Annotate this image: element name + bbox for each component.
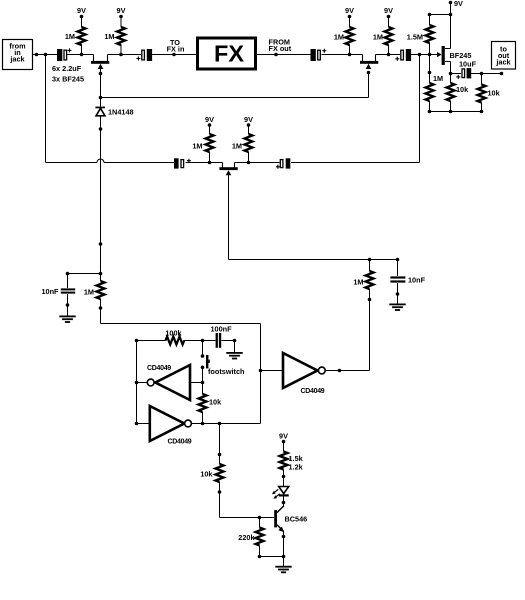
svg-text:10k: 10k: [209, 398, 222, 407]
node dot: 10nF right junction: [396, 258, 400, 262]
node dot: 100nF ground junction: [233, 339, 237, 343]
wire: left 10nF top lead: [67, 274, 69, 289]
resistor R1 1M: [65, 27, 86, 45]
resistor R2 1M: [104, 27, 125, 45]
node dot: left rail top: [135, 339, 139, 343]
wire: 10k R11 top lead: [202, 383, 204, 395]
node dot: source cap junction: [449, 72, 453, 76]
wire: node A branch down to bypass line: [45, 55, 47, 163]
wire: LED resistor bottom: [283, 470, 285, 487]
svg-text:1M: 1M: [84, 288, 94, 297]
node dot: 10nF left bottom: [66, 303, 70, 307]
resistor R15 10k: [478, 85, 501, 103]
wire: U1 output to left rail: [137, 382, 148, 384]
wire: bypass line left section: [46, 162, 98, 164]
wire: R9 bottom to U3 output line: [369, 289, 371, 371]
node dot: 10nF left junction: [66, 272, 70, 276]
to out jack box: [492, 42, 516, 70]
capacitor 10nF right: [390, 276, 425, 285]
svg-text:1M: 1M: [192, 142, 202, 151]
wire: 10k R14 top lead: [450, 74, 452, 84]
wire: 1.5M top lead: [429, 15, 431, 26]
footswitch SW1: [201, 354, 245, 376]
capacitor 100nF: [210, 325, 232, 348]
wire: diode D1 anode down: [100, 116, 102, 274]
node dot: U3 output: [338, 369, 342, 373]
wire: cap C3 to JFET Q2 source lead: [322, 54, 363, 56]
svg-text:9V: 9V: [345, 6, 354, 15]
wire: 100k to footswitch junction: [184, 340, 203, 342]
wire: cap C5 to JFET Q3: [186, 162, 223, 164]
svg-text:10nF: 10nF: [408, 276, 426, 285]
svg-text:9V: 9V: [117, 6, 126, 15]
node dot: emitter rail: [282, 555, 286, 559]
svg-text:9V: 9V: [205, 115, 214, 124]
svg-text:9V: 9V: [384, 6, 393, 15]
wire: JFET Q3 to cap C6: [235, 162, 280, 164]
svg-text:10uF: 10uF: [459, 60, 477, 69]
svg-text:10k: 10k: [200, 470, 213, 479]
node dot: R10 top junction: [99, 272, 103, 276]
node dot: main line after jack: [35, 53, 39, 57]
capacitor C7 10uF: [456, 60, 476, 79]
node dot: R7 top 9V: [208, 123, 212, 127]
svg-text:jack: jack: [9, 55, 25, 64]
svg-text:100k: 100k: [165, 329, 182, 338]
svg-text:CD4049: CD4049: [147, 365, 171, 372]
node dot: FROM FX out: [274, 53, 278, 57]
node dot: out node left: [480, 72, 484, 76]
node dot: emitter: [282, 535, 286, 539]
wire: right 10nF bottom to ground: [397, 283, 399, 304]
svg-text:1M: 1M: [353, 278, 363, 287]
wire: 1.5M top link: [430, 14, 451, 16]
wire: bypass line hop to cap C5: [104, 162, 174, 164]
node dot: out node right: [500, 72, 504, 76]
node dot: 220k top: [258, 516, 262, 520]
transistor Q5 BC546: [274, 506, 307, 532]
wire: R6 bottom to main line: [388, 45, 390, 55]
wire: 10k R11 bottom lead: [202, 412, 204, 424]
node dot: U1 input junction: [201, 381, 205, 385]
svg-text:9V: 9V: [244, 115, 253, 124]
wire: 1M R13 top lead: [429, 55, 431, 84]
node dot: gate column mid: [99, 242, 103, 246]
node dot: left rail U1 output: [135, 381, 139, 385]
svg-text:10k: 10k: [456, 85, 469, 94]
wire: left rail to U2 input: [137, 423, 150, 425]
wire: BF245 source lead: [445, 61, 451, 63]
wire: emitter down to ground: [283, 532, 285, 567]
transistor Q3 BF245: [219, 163, 237, 176]
transistor Q4 BF245 output buffer: [437, 46, 471, 65]
wire: U3 output to riser: [326, 370, 370, 372]
resistor R8 1M: [232, 134, 253, 152]
node dot: 10nF right bottom: [396, 292, 400, 296]
wire: Q1 gate down to junction: [100, 69, 102, 107]
resistor R17 1.5k/1.2k: [280, 452, 304, 472]
svg-text:1M: 1M: [373, 33, 383, 42]
capacitor C1 2.2uF: [57, 48, 72, 61]
wire: source junction to 10uF: [451, 73, 462, 75]
wire: 1.5M bottom lead: [429, 43, 431, 55]
LED D2: [272, 487, 289, 499]
node dot: R6 bottom: [387, 53, 391, 57]
node dot: rail R15: [480, 110, 484, 114]
wire: left 10nF bottom lead to ground: [67, 294, 69, 316]
wire: 10k R14 bottom lead: [450, 101, 452, 112]
wire: cap C1 to JFET Q1 source lead: [67, 54, 94, 56]
svg-text:1M: 1M: [232, 142, 242, 151]
wire: 10k R12 bottom to corner: [219, 482, 221, 518]
inverter U2 CD4049: [150, 406, 192, 446]
wire: R1 bottom to main line: [81, 45, 83, 55]
node dot: R8 bottom: [247, 161, 251, 165]
wire: LED cathode to collector: [283, 497, 285, 507]
resistor 1.5M: [407, 25, 434, 43]
wire: R6 top to 9V: [388, 17, 390, 28]
node dot: R9 node junction: [368, 258, 372, 262]
node dot: R6 top 9V: [387, 15, 391, 19]
node dot: latch line 10k R11: [201, 422, 205, 426]
wire: cap C6 to node B riser: [291, 162, 420, 164]
wire: R2 bottom to main line: [120, 45, 122, 55]
capacitor 10nF left: [41, 287, 75, 296]
resistor R12 10k: [200, 464, 223, 482]
svg-text:1M: 1M: [334, 33, 344, 42]
node dot: R7 bottom: [208, 161, 212, 165]
wire: 1M R13 bottom lead: [429, 101, 431, 112]
node dot: R9 bottom: [368, 298, 372, 302]
wire: FX box to cap C3: [257, 54, 311, 56]
resistor R16 220k: [238, 528, 263, 546]
wire: R5 bottom to main line: [349, 45, 351, 55]
FX box: [198, 38, 256, 69]
node dot: R10 bottom: [99, 306, 103, 310]
wire: right 10nF top lead: [397, 260, 399, 277]
wire: footswitch junction to 100nF: [203, 340, 216, 342]
svg-text:9V: 9V: [77, 6, 86, 15]
node dot: R1 top 9V: [80, 15, 84, 19]
resistor R7 1M: [192, 134, 213, 152]
node dot: node B riser junction: [418, 53, 422, 57]
svg-text:1N4148: 1N4148: [108, 108, 134, 117]
wire: 100nF ground drop: [234, 341, 236, 353]
capacitor C2: [136, 49, 152, 61]
svg-text:jack: jack: [495, 58, 511, 67]
node dot: 9V top right: [449, 1, 453, 5]
from in jack box: [3, 40, 33, 70]
wire: footswitch bottom lead: [202, 369, 204, 383]
node dot: footswitch junction: [201, 339, 205, 343]
node dot: rail R13: [428, 110, 432, 114]
node dot: R8 top 9V: [247, 123, 251, 127]
wire: footswitch top lead: [202, 341, 204, 355]
resistor R11 10k: [199, 394, 223, 412]
wire: emitter bottom rail: [260, 556, 284, 558]
wire: JFET Q1 drain lead to cap C2: [108, 54, 142, 56]
wire: 10uF to out node: [471, 73, 502, 75]
resistor R14 10k: [447, 83, 470, 101]
transistor Q2 BF245: [360, 55, 378, 70]
svg-text:CD4049: CD4049: [168, 439, 192, 446]
node dot: R2 top 9V: [119, 15, 123, 19]
transistor Q1 BF245: [91, 55, 109, 70]
capacitor C4: [395, 49, 411, 61]
wire: BF245 drain riser to 9V line: [450, 15, 452, 49]
svg-text:footswitch: footswitch: [208, 367, 244, 376]
resistor R5 1M: [334, 27, 354, 45]
svg-text:FX in: FX in: [167, 45, 185, 54]
node dot: R5 bottom: [348, 53, 352, 57]
svg-text:10nF: 10nF: [41, 287, 59, 296]
node dot: drain riser junction: [449, 13, 453, 17]
svg-text:1M: 1M: [433, 74, 443, 83]
wire: R1 top to 9V: [81, 17, 83, 28]
svg-text:1M: 1M: [104, 32, 114, 41]
svg-text:6x 2.2uF: 6x 2.2uF: [52, 64, 82, 73]
svg-text:CD4049: CD4049: [301, 388, 325, 395]
wire: R7 leads: [209, 125, 211, 163]
wire: latch left rail: [136, 341, 138, 424]
node dot: TO FX in: [172, 53, 176, 57]
node dot: gate line junction: [99, 96, 103, 100]
wire: R5 top to 9V: [349, 17, 351, 28]
crossover hop of bypass line over gate line: [97, 159, 104, 163]
wire: 220k bottom lead: [259, 518, 261, 528]
resistor 100k: [165, 329, 184, 345]
diode D1 1N4148: [95, 107, 133, 117]
wire: JFET Q2 drain lead to cap C4: [376, 54, 401, 56]
wire: R8 leads: [248, 125, 250, 163]
svg-text:FX: FX: [214, 41, 244, 67]
wire: U2 output latch line: [192, 423, 261, 425]
node dot: U3 input: [259, 369, 263, 373]
ground below 10nF right: [389, 304, 405, 311]
wire: cap C2 to FX box: [151, 54, 196, 56]
node dot: Q1 gate: [99, 72, 103, 76]
wire: cap C4 to BF245 gate: [410, 54, 438, 56]
wire: R2 top to 9V: [120, 17, 122, 28]
node dot: R1 bottom: [80, 53, 84, 57]
wire: base line to BC546: [220, 517, 275, 519]
node dot: R12 lower: [218, 490, 222, 494]
wire: node B riser vertical: [419, 55, 421, 163]
resistor R10 1M: [84, 281, 105, 299]
capacitor C5: [174, 158, 191, 168]
node dot: left rail U2 input: [135, 422, 139, 426]
wire: left 10nF branch: [68, 273, 101, 275]
inverter U3 CD4049: [283, 353, 325, 395]
node dot: 1M R13 upper: [428, 71, 432, 75]
node dot: Q2 gate: [367, 71, 371, 75]
wire: bottom rail of output buffer: [430, 111, 482, 113]
wire: U1 input line: [191, 382, 203, 384]
node dot: bypass branch: [44, 53, 48, 57]
node dot: 1.5M junction: [428, 53, 432, 57]
node dot: R2 bottom: [119, 53, 123, 57]
ground below 100nF: [226, 352, 242, 359]
ground below 10nF left: [59, 316, 75, 323]
svg-text:3x BF245: 3x BF245: [52, 75, 84, 84]
svg-text:BC546: BC546: [285, 515, 308, 524]
svg-text:1.5M: 1.5M: [407, 33, 423, 42]
inverter U1 CD4049: [147, 365, 190, 400]
svg-text:9V: 9V: [279, 432, 288, 441]
resistor R6 1M: [373, 27, 393, 45]
node dot: latch line R12 branch: [218, 422, 222, 426]
wire: 220k to bottom rail: [259, 546, 261, 557]
node dot: LED cathode: [282, 501, 286, 505]
svg-text:9V: 9V: [454, 0, 463, 8]
ground below emitter: [275, 566, 291, 573]
node dot: 1.5M top: [428, 13, 432, 17]
wire: R10 bottom to corner: [100, 299, 102, 324]
wire: U3 input column vertical: [260, 324, 262, 424]
wire: gate line Q1 to Q2: [101, 97, 369, 99]
svg-text:10k: 10k: [488, 89, 501, 98]
node dot: LED resistor bottom: [282, 475, 286, 479]
wire: Q3 gate line to right node: [229, 259, 398, 261]
wire: LED 9V feed: [283, 442, 285, 452]
svg-text:FX out: FX out: [269, 44, 292, 53]
svg-text:100nF: 100nF: [210, 325, 232, 334]
wire: Q2 gate riser: [368, 73, 370, 98]
wire: 100nF to ground junction: [222, 340, 235, 342]
capacitor C3: [311, 49, 327, 61]
resistor R13 1M: [426, 74, 444, 101]
node dot: R12 upper: [218, 453, 222, 457]
wire: BF245 source down to cap junction: [450, 62, 452, 74]
svg-text:1.2k: 1.2k: [289, 463, 304, 472]
wire: U3 input stub: [261, 370, 284, 372]
wire: Q3 gate down: [228, 175, 230, 260]
wire: BF245 drain lead: [445, 48, 451, 50]
wire: R10 top lead: [100, 274, 102, 282]
svg-text:1M: 1M: [65, 32, 75, 41]
resistor R9 1M: [353, 271, 373, 289]
capacitor C6: [276, 158, 290, 169]
node dot: LED 9V: [282, 440, 286, 444]
node dot: below diode: [99, 127, 103, 131]
wire: latch drive line to inverter U3 input column: [101, 323, 261, 325]
svg-text:220k: 220k: [238, 533, 255, 542]
svg-text:BF245: BF245: [450, 51, 472, 60]
node dot: rail R14: [449, 110, 453, 114]
wire: 10k R15 leads: [481, 74, 483, 85]
node dot: 220k bottom: [258, 555, 262, 559]
node dot: R5 top 9V: [348, 15, 352, 19]
wire: from-in-jack to cap C1: [33, 54, 57, 56]
wire: 9V dot to top link: [450, 3, 452, 15]
wire: 10k R12 top lead: [219, 424, 221, 465]
wire: R9 top lead: [369, 260, 371, 272]
wire: rail to 100k: [137, 340, 166, 342]
